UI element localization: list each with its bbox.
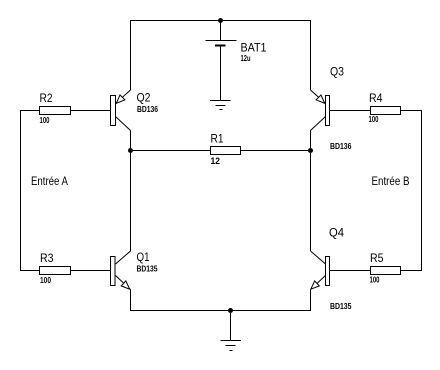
svg-text:12u: 12u	[241, 53, 251, 63]
svg-text:100: 100	[369, 114, 379, 124]
svg-text:R2: R2	[40, 92, 53, 105]
svg-text:R1: R1	[211, 133, 224, 146]
svg-text:Entrée A: Entrée A	[31, 175, 68, 188]
svg-text:100: 100	[370, 275, 380, 285]
svg-text:Q2: Q2	[137, 92, 151, 105]
svg-text:R5: R5	[370, 252, 384, 265]
svg-text:BD136: BD136	[330, 141, 352, 151]
svg-text:12: 12	[211, 156, 221, 166]
svg-text:Q3: Q3	[330, 66, 344, 79]
svg-text:BD136: BD136	[137, 104, 158, 114]
svg-text:R3: R3	[40, 252, 54, 265]
svg-text:BD135: BD135	[330, 301, 352, 311]
svg-text:R4: R4	[369, 92, 383, 105]
svg-text:Entrée B: Entrée B	[372, 175, 410, 188]
svg-text:100: 100	[40, 275, 51, 285]
svg-text:Q4: Q4	[329, 227, 344, 240]
svg-text:BD135: BD135	[137, 264, 158, 274]
svg-text:100: 100	[40, 115, 50, 125]
svg-text:Q1: Q1	[137, 251, 150, 264]
